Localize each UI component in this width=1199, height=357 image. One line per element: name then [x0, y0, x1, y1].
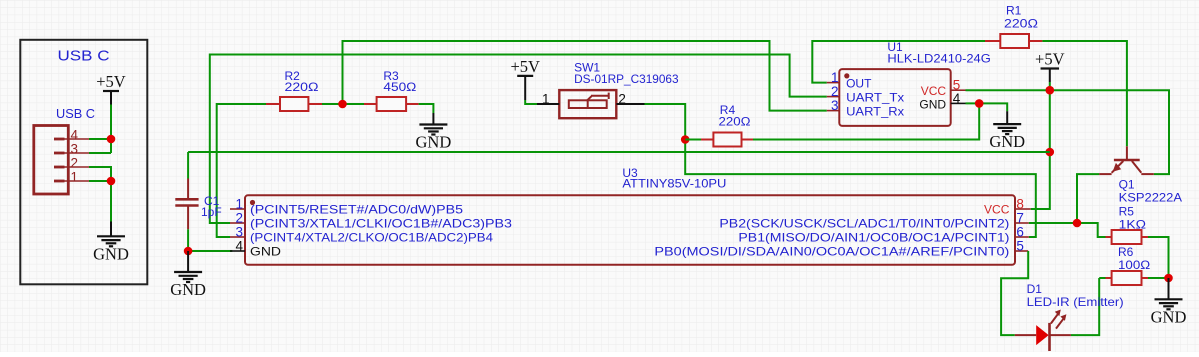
svg-text:2: 2 — [831, 84, 839, 99]
U3 pin1 indicator dot — [250, 200, 255, 205]
svg-text:GND: GND — [416, 133, 452, 152]
IC U1 body — [839, 69, 950, 126]
U3 pin 7 PB2 — [1015, 222, 1029, 224]
IC U3 body — [245, 195, 1015, 264]
svg-text:4: 4 — [953, 91, 961, 106]
U3 pin 1 PB5 — [230, 208, 245, 210]
wire +5V stub U1 — [1049, 69, 1051, 83]
wire R3 to GND — [419, 104, 434, 113]
svg-text:GND: GND — [989, 132, 1025, 151]
switch SW1 — [559, 90, 616, 118]
svg-text:OUT: OUT — [846, 76, 872, 90]
U1 pin 3 UART_Rx — [827, 110, 840, 112]
svg-text:GND: GND — [93, 244, 129, 263]
svg-text:1: 1 — [71, 170, 79, 185]
U1 pin1 indicator dot — [844, 73, 849, 78]
junction U1 GND/R4 — [975, 99, 984, 108]
svg-text:R5: R5 — [1119, 205, 1135, 219]
svg-text:(PCINT3/XTAL1/CLKI/OC1B#/ADC3): (PCINT3/XTAL1/CLKI/OC1B#/ADC3)PB3 — [250, 217, 512, 231]
svg-text:DS-01RP_C319063: DS-01RP_C319063 — [574, 72, 679, 86]
svg-text:LED-IR (Emitter): LED-IR (Emitter) — [1027, 295, 1124, 309]
svg-text:PB1(MISO/DO/AIN1/OC0B/OC1A/PCI: PB1(MISO/DO/AIN1/OC0B/OC1A/PCINT1) — [738, 231, 1009, 245]
wire U1 VCC to +5V and Q1 collector — [966, 90, 1170, 174]
svg-text:R1: R1 — [1006, 3, 1022, 17]
wire pin4 to +5V — [89, 138, 111, 140]
resistor R2 — [266, 97, 322, 111]
svg-text:GND: GND — [919, 97, 946, 111]
svg-text:220Ω: 220Ω — [285, 80, 319, 94]
junction +5V/C1 wire — [1046, 148, 1055, 157]
wire +5V rail to C1 — [188, 151, 1050, 153]
wire C1 bottom — [187, 229, 189, 251]
svg-text:+5V: +5V — [96, 72, 126, 91]
transistor Q1 — [1099, 146, 1154, 174]
svg-text:2: 2 — [618, 91, 626, 106]
wire +5V stub (black) — [110, 91, 112, 105]
svg-text:220Ω: 220Ω — [719, 114, 751, 128]
U3 pin 5 PB0 — [1015, 250, 1028, 252]
svg-text:3: 3 — [71, 142, 79, 157]
wire GND stub U1 — [1006, 111, 1008, 124]
wire R1 to Q1 base — [1042, 41, 1127, 146]
wire net U3 PB4 to R2 — [217, 104, 266, 237]
connector J1 USB C body — [34, 126, 69, 195]
svg-text:VCC: VCC — [921, 84, 947, 98]
sheet box USB C — [20, 40, 147, 284]
svg-text:Q1: Q1 — [1119, 178, 1135, 192]
wire R2-R3 junction — [322, 103, 364, 105]
wire U3 PB2 to R5 — [1029, 223, 1106, 237]
connector J1 pin 4 — [54, 138, 65, 141]
junction PB2/emitter/R5 — [1073, 219, 1082, 228]
ground (U3/C1) — [174, 272, 202, 282]
U3 pin 4 GND — [230, 250, 245, 252]
connector J1 pin 3 — [54, 152, 65, 155]
U1 pin 2 UART_Tx — [827, 96, 840, 98]
wire pin3 to +5V — [89, 152, 111, 154]
svg-text:+5V: +5V — [510, 57, 540, 76]
svg-text:1: 1 — [831, 70, 839, 85]
svg-text:2: 2 — [235, 211, 243, 226]
svg-text:PB0(MOSI/DI/SDA/AIN0/OC0A/OC1A: PB0(MOSI/DI/SDA/AIN0/OC0A/OC1A#/AREF/PCI… — [654, 245, 1009, 259]
resistor R4 — [701, 133, 753, 147]
wire GND stub U3 — [187, 251, 189, 272]
svg-text:3: 3 — [235, 225, 243, 240]
svg-text:GND: GND — [1151, 307, 1187, 326]
svg-text:UART_Rx: UART_Rx — [846, 104, 904, 118]
wire R3 GND stub — [432, 113, 434, 125]
svg-text:(PCINT4/XTAL2/CLKO/OC1B/ADC2)P: (PCINT4/XTAL2/CLKO/OC1B/ADC2)PB4 — [250, 231, 493, 245]
resistor R5 — [1106, 230, 1149, 244]
resistor R3 — [364, 97, 419, 111]
wire R5 to GND junction — [1148, 237, 1169, 278]
wire +5V down to pins 4/3 — [110, 105, 112, 154]
svg-text:100Ω: 100Ω — [1118, 258, 1150, 272]
wire C1 top — [187, 152, 189, 179]
junction R2/R3/wireA — [338, 100, 347, 109]
svg-text:VCC: VCC — [984, 203, 1010, 217]
wire R4 left — [685, 139, 701, 141]
resistor R1 — [985, 34, 1042, 48]
U1 pin 1 OUT — [827, 82, 840, 84]
LED D1 — [1015, 310, 1071, 352]
U3 pin 2 PB3 — [230, 222, 245, 224]
U3 pin 8 VCC — [1015, 208, 1031, 210]
svg-text:3: 3 — [831, 98, 839, 113]
power +5V (U1) — [1041, 67, 1060, 69]
junction R5/R6/GND — [1164, 274, 1173, 283]
U1 pin 4 GND — [951, 102, 966, 104]
junction pin4/+5V — [107, 135, 116, 144]
wire pin2 down to GND — [89, 167, 111, 222]
wire to U3 GND pin — [188, 250, 232, 252]
svg-text:USB C: USB C — [58, 47, 110, 64]
capacitor C1 — [175, 179, 198, 230]
wire GND stub (black) — [110, 222, 112, 237]
junction C1/U3 GND — [184, 247, 193, 256]
junction SW1/R4 — [681, 135, 690, 144]
wire R4 to U1 GND net — [753, 103, 979, 139]
power +5V (SW1) — [517, 75, 533, 77]
svg-text:1: 1 — [235, 197, 243, 212]
svg-text:7: 7 — [1016, 211, 1024, 226]
ground (R3) — [419, 125, 447, 135]
svg-text:GND: GND — [250, 245, 281, 259]
wire net U1 UART_Tx to U3 PB3 — [210, 55, 827, 224]
wire +5V stub SW1 — [524, 76, 526, 100]
wire GND stub R6 — [1168, 278, 1170, 299]
wire U3 PB0 to LED anode — [1001, 251, 1028, 335]
switch SW1 pin 1 — [537, 103, 559, 105]
svg-text:220Ω: 220Ω — [1004, 17, 1038, 31]
wire net divider to U1 UART_Rx — [343, 41, 827, 111]
power +5V (USB sheet) — [103, 90, 119, 92]
ground (R6) — [1155, 299, 1183, 309]
svg-text:5: 5 — [1016, 239, 1024, 254]
wire U1 OUT to R1 — [812, 41, 985, 83]
U3 pin 6 PB1 — [1015, 236, 1029, 238]
svg-text:+5V: +5V — [1035, 50, 1065, 69]
svg-text:4: 4 — [71, 128, 79, 143]
svg-text:8: 8 — [1016, 197, 1024, 212]
ground (U1) — [993, 124, 1021, 134]
svg-text:PB2(SCK/USCK/SCL/ADC1/T0/INT0/: PB2(SCK/USCK/SCL/ADC1/T0/INT0/PCINT2) — [719, 217, 1009, 231]
svg-text:KSP2222A: KSP2222A — [1119, 191, 1182, 205]
wire PB2 to Q1 emitter — [1077, 174, 1099, 223]
wire R6 to GND junction — [1148, 277, 1169, 279]
svg-text:ATTINY85V-10PU: ATTINY85V-10PU — [622, 176, 726, 190]
wire SW1 pin2 to U3 PB1 — [645, 104, 1036, 237]
resistor R6 — [1106, 271, 1149, 285]
svg-text:450Ω: 450Ω — [383, 80, 416, 94]
svg-text:GND: GND — [170, 280, 206, 299]
wire pin1 to GND net — [89, 180, 111, 182]
svg-text:1pF: 1pF — [201, 205, 222, 219]
wire R6 to LED cathode — [1071, 278, 1099, 335]
svg-text:1: 1 — [542, 91, 550, 106]
junction +5V/VCC wire — [1046, 86, 1055, 95]
junction pin1/GND — [107, 177, 116, 186]
svg-text:UART_Tx: UART_Tx — [846, 90, 904, 104]
wire +5V to SW1 pin1 — [525, 100, 537, 104]
connector J1 pin 1 — [54, 180, 65, 183]
svg-text:(PCINT5/RESET#/ADC0/dW)PB5: (PCINT5/RESET#/ADC0/dW)PB5 — [250, 203, 463, 217]
connector J1 pin 2 — [54, 166, 65, 169]
U1 pin 5 VCC — [951, 89, 966, 91]
svg-text:4: 4 — [235, 239, 243, 254]
svg-text:HLK-LD2410-24G: HLK-LD2410-24G — [887, 51, 990, 65]
wire +5V down to U3 VCC — [1031, 82, 1050, 209]
switch SW1 pin 2 — [616, 103, 644, 105]
U3 pin 3 PB4 — [230, 236, 245, 238]
svg-text:6: 6 — [1016, 225, 1024, 240]
wire U1 GND to ground — [966, 103, 1008, 111]
svg-text:2: 2 — [71, 156, 79, 171]
svg-text:USB C: USB C — [56, 107, 95, 121]
ground (USB sheet) — [97, 236, 125, 246]
wire R6 left — [1099, 277, 1105, 279]
